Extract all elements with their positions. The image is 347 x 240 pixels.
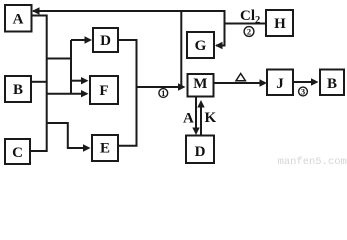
svg-text:F: F xyxy=(99,83,108,99)
svg-text:1: 1 xyxy=(161,88,165,98)
svg-text:B: B xyxy=(13,82,23,98)
svg-text:2: 2 xyxy=(247,27,251,37)
svg-text:G: G xyxy=(195,38,207,54)
svg-text:manfen5.com: manfen5.com xyxy=(278,156,347,166)
svg-text:K: K xyxy=(205,110,217,126)
svg-text:A: A xyxy=(183,111,194,127)
svg-text:C: C xyxy=(12,145,23,161)
svg-text:D: D xyxy=(195,144,206,160)
svg-text:D: D xyxy=(100,33,111,49)
svg-text:B: B xyxy=(327,76,337,92)
svg-text:3: 3 xyxy=(301,87,305,97)
svg-text:J: J xyxy=(276,76,284,92)
svg-text:H: H xyxy=(274,16,286,32)
svg-text:M: M xyxy=(193,76,207,92)
svg-text:A: A xyxy=(13,12,24,28)
svg-text:E: E xyxy=(100,141,110,157)
